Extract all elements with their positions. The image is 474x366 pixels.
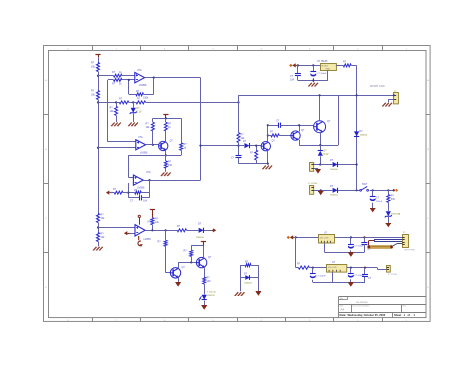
svg-text:Wednesday, October 25, 2000: Wednesday, October 25, 2000: [348, 313, 386, 317]
svg-text:J? CON2: J? CON2: [388, 274, 398, 276]
svg-text:1N4004: 1N4004: [196, 237, 204, 239]
svg-text:104: 104: [143, 200, 148, 203]
svg-text:1N5226: 1N5226: [207, 295, 215, 297]
svg-text:100: 100: [207, 280, 212, 283]
svg-text:5.1V: 5.1V: [324, 153, 329, 156]
svg-text:T 100 0C: T 100 0C: [207, 292, 216, 294]
svg-text:104: 104: [290, 79, 295, 82]
svg-text:A4: A4: [341, 308, 345, 312]
svg-text:IN OUT: IN OUT: [322, 66, 330, 68]
svg-text:U?A: U?A: [138, 136, 143, 139]
svg-text:C? 100uF: C? 100uF: [316, 276, 326, 278]
svg-text:U?A: U?A: [146, 171, 151, 174]
svg-text:LM358: LM358: [139, 84, 147, 87]
svg-text:MPWR GND: MPWR GND: [370, 84, 385, 88]
svg-text:LM358: LM358: [144, 239, 152, 241]
svg-text:J? CON2: J? CON2: [308, 183, 318, 185]
svg-text:1N4004: 1N4004: [330, 169, 338, 171]
svg-text:EXT PWR: EXT PWR: [405, 249, 415, 251]
svg-text:U?A: U?A: [137, 69, 142, 72]
svg-text:1N4004: 1N4004: [330, 195, 338, 197]
svg-text:100uF: 100uF: [376, 201, 383, 203]
svg-text:U? 78L05: U? 78L05: [317, 60, 328, 63]
svg-text:xx-xxxxx: xx-xxxxx: [356, 300, 368, 304]
svg-text:Rev: Rev: [403, 306, 407, 308]
svg-text:SW?: SW?: [362, 183, 368, 186]
svg-text:Document Number: Document Number: [353, 305, 370, 308]
svg-text:Date:: Date:: [340, 313, 347, 317]
svg-text:5.1V: 5.1V: [137, 111, 142, 114]
svg-text:C? 100uF: C? 100uF: [354, 246, 364, 248]
svg-text:100k: 100k: [143, 97, 149, 100]
svg-text:C? 100uF: C? 100uF: [317, 73, 327, 75]
svg-text:1N4004: 1N4004: [244, 282, 252, 284]
svg-text:+IN +OUT: +IN +OUT: [328, 267, 338, 269]
svg-text:330: 330: [391, 198, 396, 201]
svg-text:LM358: LM358: [140, 151, 148, 154]
svg-text:LM358: LM358: [137, 187, 145, 190]
svg-text:1N4744A: 1N4744A: [391, 213, 401, 216]
svg-text:1N4004: 1N4004: [360, 135, 368, 137]
svg-text:of: of: [408, 313, 411, 317]
svg-text:100: 100: [168, 164, 173, 167]
svg-text:+IN +OUT: +IN +OUT: [320, 237, 330, 239]
svg-text:GND: GND: [326, 69, 331, 71]
svg-text:Sheet: Sheet: [394, 313, 401, 317]
